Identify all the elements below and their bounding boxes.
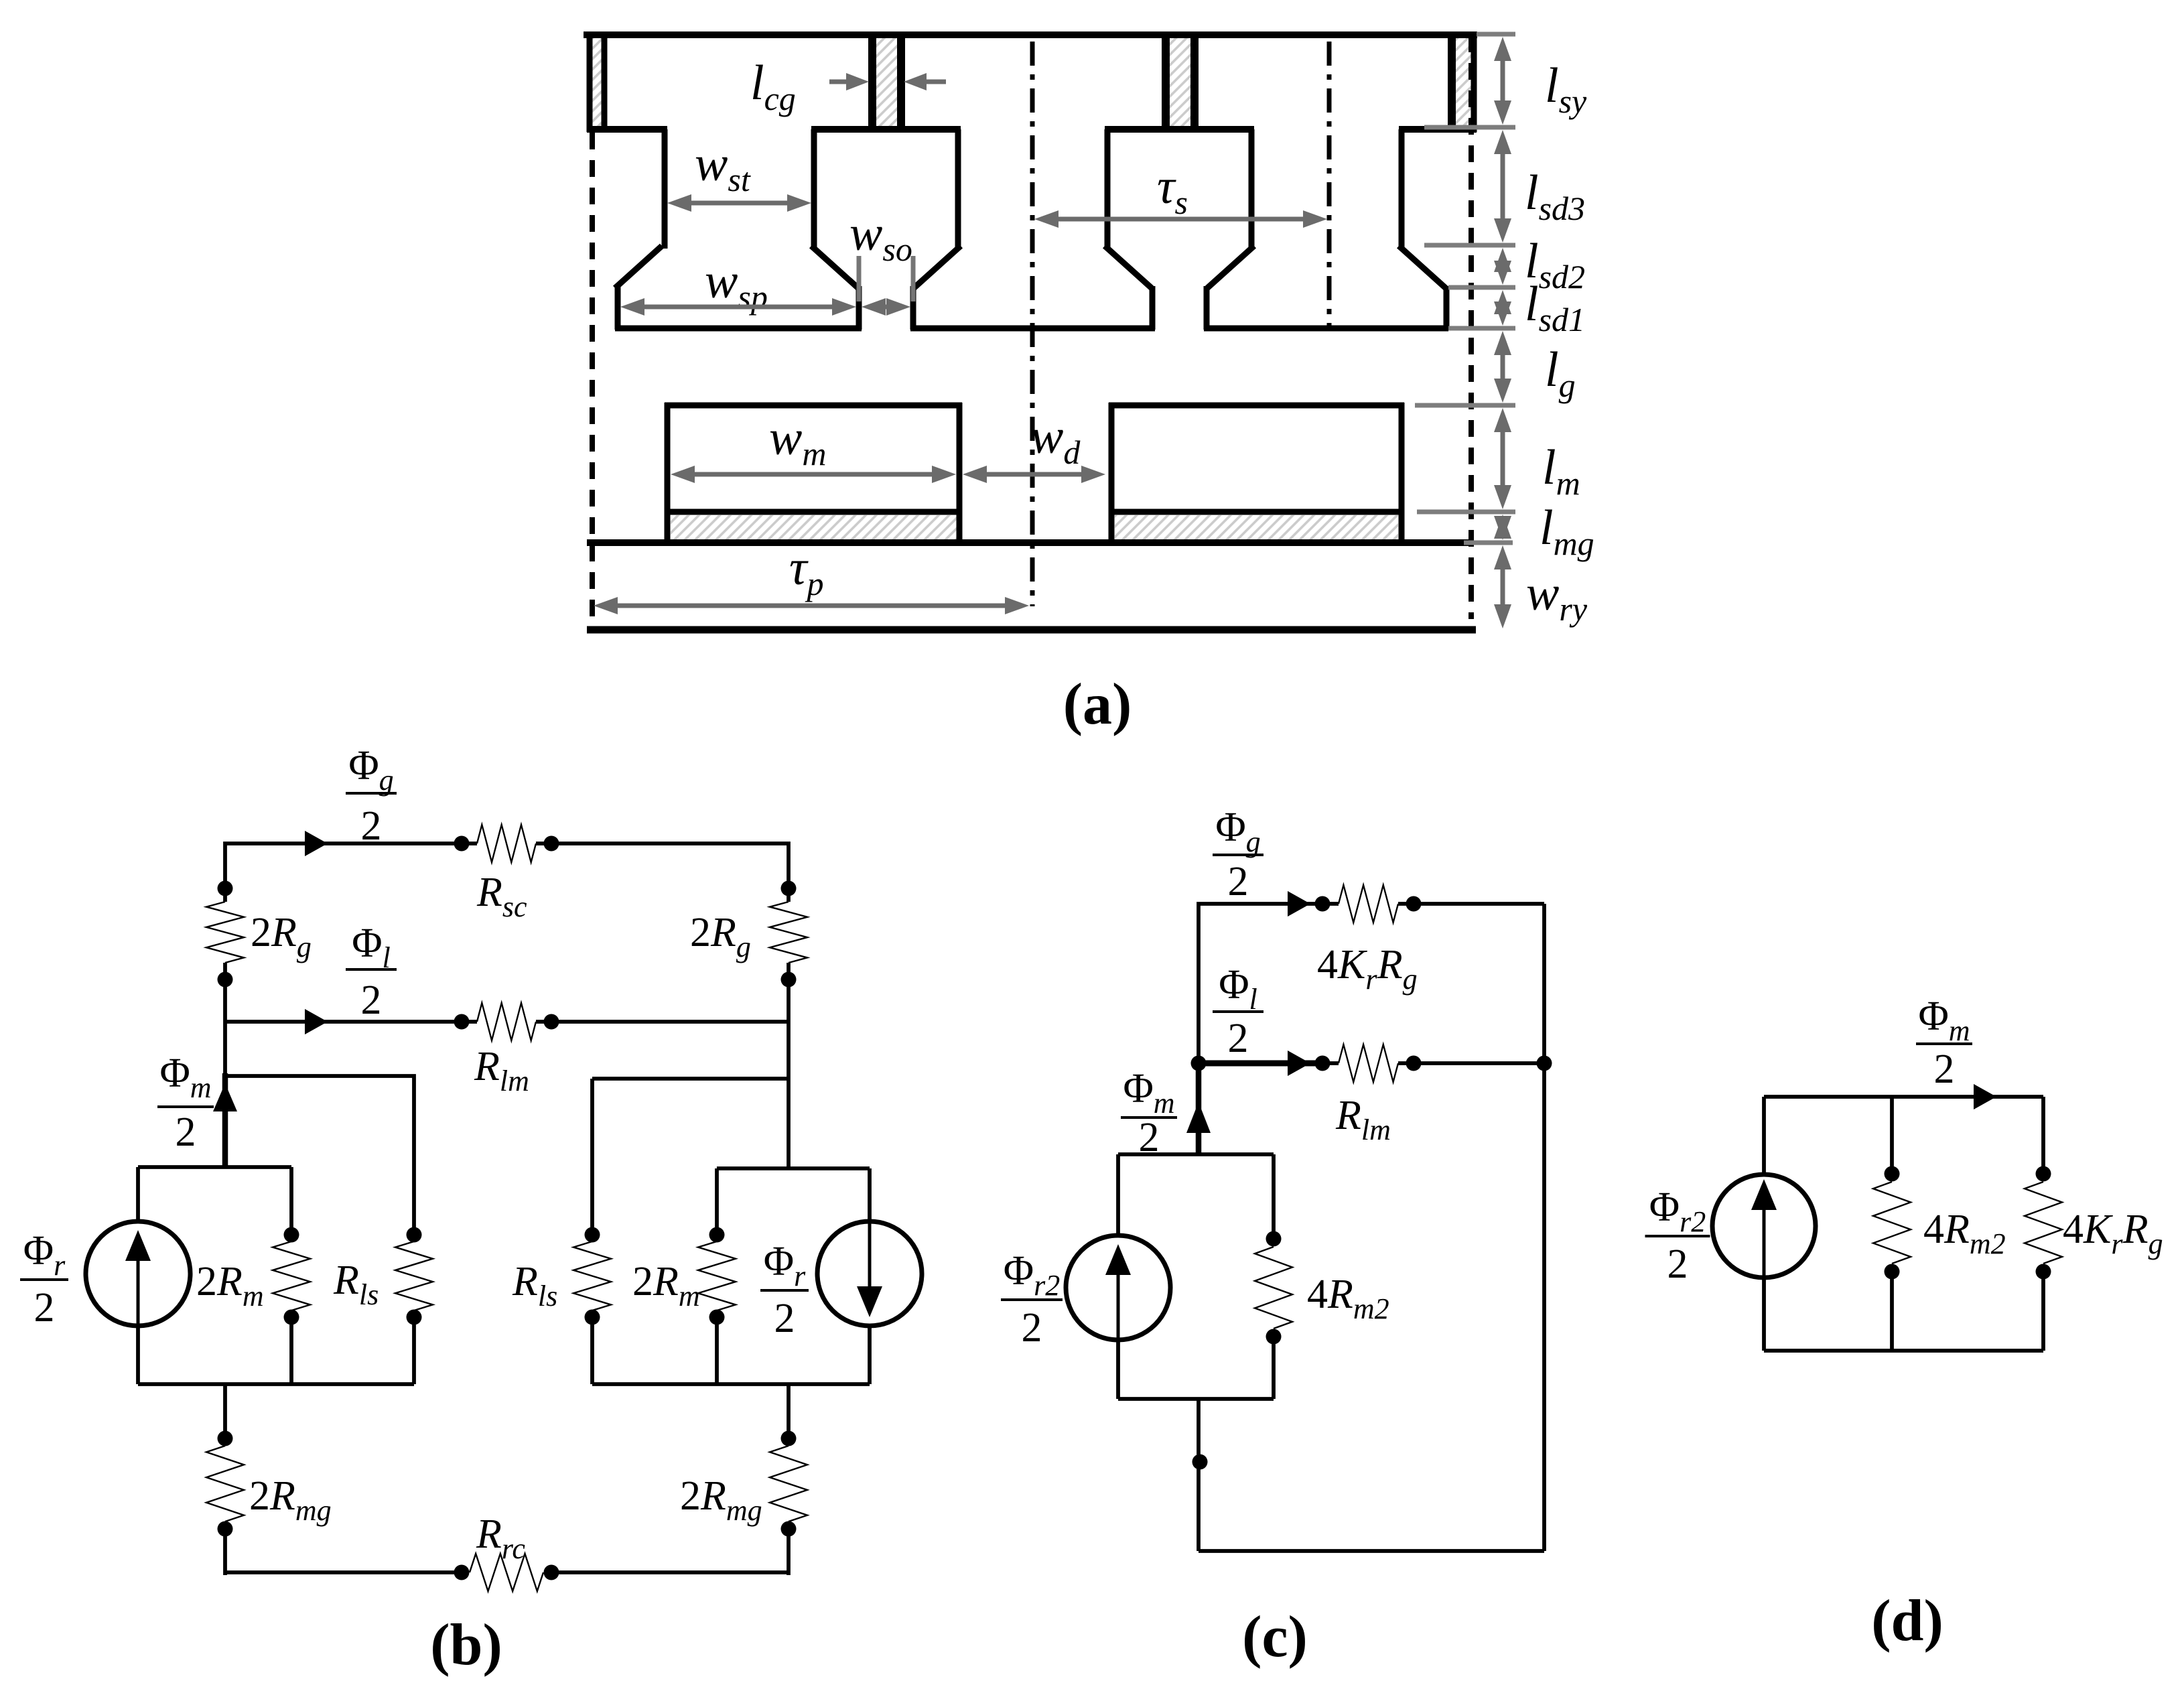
node dot c Rlm right xyxy=(1406,1056,1422,1071)
wire b left 2Rm branch bottom xyxy=(289,1317,293,1384)
resistor 2R_mg right xyxy=(770,1446,807,1521)
flux source Phi_r/2 left circle xyxy=(86,1221,190,1326)
label Phi_r2/2 (d) xyxy=(1645,1185,1710,1287)
tooth centerline dash-dot 2 xyxy=(1327,42,1332,328)
wire b right vertical mid xyxy=(787,963,791,1168)
dimension arrow w_st xyxy=(667,194,811,212)
right symmetry dashed line xyxy=(1469,36,1474,619)
dim chain tick lsd2/lsd1 xyxy=(1448,285,1515,290)
svg-text:2: 2 xyxy=(176,1109,196,1155)
wire b left 2Rm branch top xyxy=(289,1167,293,1235)
svg-text:2: 2 xyxy=(1934,1046,1955,1092)
dimension arrow w_d xyxy=(963,466,1105,483)
dim chain tick lg/lm xyxy=(1415,403,1515,408)
label Phi_m/2 (c) xyxy=(1121,1066,1177,1160)
node dot d 4KrRg top xyxy=(2036,1166,2051,1182)
node dot b left top xyxy=(218,881,233,896)
wire b top left segment (Phi_g/2 path) xyxy=(225,843,477,902)
resistor R_lm (c) xyxy=(1339,1044,1398,1082)
slot4 left wall xyxy=(1399,129,1405,249)
slot2 left channel wall xyxy=(856,286,862,330)
wire b left loop top xyxy=(138,1165,291,1169)
wire b bottom rail right xyxy=(551,1570,789,1574)
resistor 2R_mg left xyxy=(206,1446,244,1521)
dimension arrow w_so xyxy=(862,298,910,316)
dimension arrow tau_p xyxy=(594,597,1029,614)
wire b Rlm row left xyxy=(225,1020,477,1024)
dimension arrow w_m xyxy=(671,466,956,483)
dimension arrow tau_s xyxy=(1034,210,1327,228)
slot1 right channel wall xyxy=(615,286,621,330)
node dot b right top xyxy=(781,881,797,896)
dim chain arrow w_ry xyxy=(1494,545,1511,628)
wire c 4Rm2 branch xyxy=(1272,1154,1276,1239)
coil gap strip borders slot2 xyxy=(868,32,876,129)
wire c Phi_m/2 segment xyxy=(1196,1063,1202,1154)
node dot d 4Rm2 bot xyxy=(1885,1264,1900,1280)
node dot b left mid xyxy=(218,972,233,988)
resistor 4R_m2 (c) xyxy=(1255,1247,1292,1329)
stator yoke bottom edge seg4 xyxy=(1399,126,1477,133)
magnet1 glue gap hatch xyxy=(671,515,957,540)
flux arrow Phi_m/2 (d) xyxy=(1974,1084,1996,1109)
dim chain arrow l_mg xyxy=(1494,515,1511,540)
wire c right vertical xyxy=(1542,904,1546,1551)
node dot b 2Rmg-l bot xyxy=(218,1521,233,1537)
flux arrow Phi_l/2 (c) xyxy=(1288,1051,1310,1076)
node dot b 2Rmg-r bot xyxy=(781,1521,797,1537)
flux arrow Phi_g/2 (b) xyxy=(305,831,328,856)
slot4 left channel wall xyxy=(1444,286,1450,330)
wire c top row xyxy=(1199,904,1339,1063)
slot2 right wall xyxy=(955,129,961,249)
svg-text:2: 2 xyxy=(34,1285,55,1331)
svg-text:(b): (b) xyxy=(430,1613,502,1678)
wire b left Rls branch bottom xyxy=(412,1317,416,1384)
wire d middle branch xyxy=(1890,1097,1894,1174)
node dot b 2Rm-l bot xyxy=(284,1310,299,1325)
coil gap hatch strip left edge xyxy=(592,38,602,127)
svg-text:(d): (d) xyxy=(1871,1588,1943,1653)
wire b left 2Rmg stem xyxy=(223,1384,227,1438)
node dot b Rrc right xyxy=(544,1565,559,1580)
wire c bottom stem xyxy=(1197,1399,1201,1551)
dim chain arrow l_m xyxy=(1494,408,1511,509)
dim chain tick lmg/wry xyxy=(1464,541,1513,545)
node dot b Rsc right xyxy=(544,836,559,852)
node dot d 4Rm2 top xyxy=(1885,1166,1900,1182)
svg-text:2: 2 xyxy=(1022,1305,1042,1351)
dim chain arrow l_sd3 xyxy=(1494,130,1511,243)
label Phi_m/2 (b) xyxy=(157,1051,214,1155)
slot2 right channel wall xyxy=(910,286,916,330)
flux source Phi_r2/2 (c) circle xyxy=(1066,1235,1170,1340)
label Phi_m/2 (d) xyxy=(1916,994,1972,1092)
svg-text:2: 2 xyxy=(1667,1241,1688,1287)
node dot b 2Rm-l top xyxy=(284,1227,299,1243)
wire c loop left branch xyxy=(1116,1154,1120,1237)
wire c Rlm row xyxy=(1325,1061,1339,1065)
slot1 right wall xyxy=(662,129,668,249)
wire b right 2Rmg to rail xyxy=(787,1529,791,1575)
dim chain arrow l_sd1 xyxy=(1494,290,1511,326)
svg-text:2: 2 xyxy=(1228,859,1249,904)
wire b left loop bottom xyxy=(138,1382,414,1386)
node dot c top res right xyxy=(1406,896,1422,912)
coil gap hatch strip slot3 xyxy=(1170,36,1190,128)
rotor yoke bottom edge xyxy=(587,626,1476,634)
node dot c right vert xyxy=(1537,1056,1552,1071)
wire b left vertical mid xyxy=(223,963,227,1075)
node dot b Rls-r top xyxy=(585,1227,600,1243)
stator yoke bottom edge seg2 (slot2 top) xyxy=(811,126,961,133)
w_so tick right xyxy=(911,256,916,301)
svg-text:2: 2 xyxy=(774,1296,795,1341)
stator yoke left edge xyxy=(587,31,593,132)
dim chain arrow l_sy xyxy=(1494,37,1511,125)
slot4 left shoe slant xyxy=(1399,246,1446,288)
flux arrow Phi_g/2 (c) xyxy=(1288,891,1310,917)
node dot b Rls-l top xyxy=(407,1227,422,1243)
wire c loop bottom xyxy=(1118,1397,1274,1401)
node dot c junction xyxy=(1191,1056,1207,1071)
wire d right branch xyxy=(2041,1097,2045,1174)
flux source Phi_r2/2 (d) arrow xyxy=(1763,1193,1766,1337)
dim chain arrow l_g xyxy=(1494,331,1511,403)
tooth centerline dash-dot 1 xyxy=(1030,42,1035,606)
resistor R_ls left xyxy=(395,1241,433,1310)
tooth2 bottom face xyxy=(910,326,1155,332)
wire b left Phi_m/2 segment xyxy=(222,1073,228,1168)
stator yoke bottom edge seg3 (slot3 top) xyxy=(1105,126,1254,133)
node dot b Rsc left xyxy=(454,836,470,852)
label Phi_l/2 (b) xyxy=(346,921,397,1023)
flux source Phi_r/2 left arrow xyxy=(137,1243,140,1325)
flux source Phi_r2/2 (c) arrow xyxy=(1117,1257,1120,1339)
wire c Phi_l/2 thick segment xyxy=(1199,1061,1325,1067)
wire b bottom rail left xyxy=(225,1570,462,1574)
wire d top xyxy=(1764,1095,2043,1099)
wire b right loop bottom xyxy=(590,1317,594,1384)
node dot b 2Rmg-l top xyxy=(218,1431,233,1446)
resistor R_ls right xyxy=(573,1241,611,1310)
dimension arrow w_sp xyxy=(620,298,856,316)
slot3 right channel wall xyxy=(1204,286,1210,330)
wire b right 2Rmg stem xyxy=(787,1384,791,1438)
dim chain tick l_sy top xyxy=(1477,32,1515,37)
wire b right source branch xyxy=(868,1168,872,1223)
stator yoke right edge xyxy=(1471,31,1477,132)
svg-text:(c): (c) xyxy=(1242,1605,1308,1670)
stator yoke bottom edge seg1 xyxy=(587,126,667,133)
resistor 2R_m right xyxy=(698,1241,736,1310)
wire b Rlm row right xyxy=(536,1020,789,1024)
resistor 4K_rR_g (d) xyxy=(2025,1182,2062,1264)
resistor R_rc xyxy=(470,1554,543,1591)
node dot b 2Rmg-r top xyxy=(781,1431,797,1446)
flux source Phi_r/2 right arrow xyxy=(868,1222,872,1304)
resistor 2R_g right xyxy=(770,902,807,963)
node dot b right mid xyxy=(781,972,797,988)
slot2 right shoe slant xyxy=(914,246,961,288)
resistor R_sc xyxy=(477,825,536,862)
label Phi_g/2 (c) xyxy=(1213,805,1264,904)
wire b left Rls top link xyxy=(225,1076,414,1233)
resistor 4R_m2 (d) xyxy=(1873,1182,1911,1264)
wire c loop top xyxy=(1118,1152,1274,1156)
flux source Phi_r/2 right circle xyxy=(817,1221,922,1326)
node dot c bottom stem xyxy=(1192,1455,1208,1470)
left symmetry dashed line xyxy=(590,133,595,633)
node dot c top res left xyxy=(1315,896,1330,912)
svg-text:(a): (a) xyxy=(1063,672,1132,737)
wire b right Rls top link xyxy=(592,1077,789,1081)
node dot b 2Rm-r bot xyxy=(709,1310,725,1325)
resistor R_lm (b) xyxy=(477,1003,536,1040)
wire b left loop left branch xyxy=(136,1167,140,1223)
node dot b Rls-r bot xyxy=(585,1310,600,1325)
dimension arrow l_cg left xyxy=(829,73,869,90)
node dot c 4Rm2 top xyxy=(1266,1231,1282,1247)
node dot b Rlm right xyxy=(544,1014,559,1030)
wire c bottom rail xyxy=(1199,1549,1544,1553)
node dot b Rls-l bot xyxy=(407,1310,422,1325)
slot3 right shoe slant xyxy=(1207,246,1254,288)
svg-text:2: 2 xyxy=(361,977,382,1023)
coil gap strip border right xyxy=(1448,32,1456,129)
slot1 right shoe slant xyxy=(615,246,662,288)
wire b left 2Rmg to rail xyxy=(223,1529,227,1575)
node dot b 2Rm-r top xyxy=(709,1227,725,1243)
resistor 2R_g left xyxy=(206,902,244,963)
coil gap hatch strip slot2 xyxy=(876,36,897,128)
label Phi_l/2 (c) xyxy=(1213,962,1264,1061)
dim chain tick lsd3/lsd2 xyxy=(1424,243,1515,248)
wire d left branch xyxy=(1762,1097,1766,1174)
flux arrow Phi_m/2 (b) xyxy=(213,1083,237,1111)
label Phi_r2/2 (c) xyxy=(1001,1248,1063,1351)
slot3 right wall xyxy=(1249,129,1255,249)
rotor yoke top surface xyxy=(587,539,1473,546)
magnet1 outline xyxy=(665,403,671,543)
resistor 2R_m left xyxy=(273,1241,310,1310)
w_so tick left xyxy=(857,256,862,301)
coil gap strip border left xyxy=(602,32,608,129)
svg-text:2: 2 xyxy=(1139,1115,1160,1160)
label Phi_r/2 right xyxy=(760,1239,809,1341)
svg-text:2: 2 xyxy=(361,803,382,849)
wire b top right segment xyxy=(536,843,789,902)
stator yoke top edge xyxy=(584,31,1477,38)
slot3 left shoe slant xyxy=(1105,246,1152,288)
node dot b Rlm left xyxy=(454,1014,470,1030)
tooth1 bottom face xyxy=(615,326,862,332)
dim chain tick lsd1/lg xyxy=(1448,326,1515,331)
dimension arrow l_cg right xyxy=(904,73,946,90)
node dot b Rrc left xyxy=(454,1565,470,1580)
coil gap hatch strip right edge xyxy=(1456,36,1471,128)
flux arrow Phi_m/2 (c) xyxy=(1186,1102,1211,1133)
dim chain tick lsy/lsd3 xyxy=(1424,125,1515,130)
wire b right loop top xyxy=(717,1166,870,1170)
slot3 left wall xyxy=(1105,129,1111,249)
node dot c 4Rm2 bot xyxy=(1266,1329,1282,1345)
label Phi_r/2 left xyxy=(20,1228,68,1331)
resistor 4K_rR_g (c) xyxy=(1339,885,1398,923)
coil gap strip borders slot3 xyxy=(1162,32,1170,129)
node dot c Rlm left xyxy=(1315,1056,1330,1071)
label Phi_g/2 (b) xyxy=(346,743,397,849)
magnet2 outline xyxy=(1109,403,1115,543)
wire b right 2Rm branch xyxy=(715,1168,719,1235)
wire b right Rls branch xyxy=(590,1079,594,1235)
flux arrow Phi_l/2 (b) xyxy=(305,1009,328,1034)
tooth3 bottom face xyxy=(1204,326,1448,332)
magnet2 glue gap hatch xyxy=(1115,515,1398,540)
svg-text:2: 2 xyxy=(1228,1016,1249,1061)
slot2 left wall xyxy=(811,129,817,249)
dim chain arrow l_sd2 xyxy=(1494,248,1511,285)
slot2 left shoe slant xyxy=(811,246,858,288)
wire d bottom xyxy=(1764,1349,2043,1353)
node dot d 4KrRg bot xyxy=(2036,1264,2051,1280)
slot3 left channel wall xyxy=(1150,286,1156,330)
flux source Phi_r2/2 (d) circle xyxy=(1712,1174,1816,1278)
dim chain tick lm/lmg xyxy=(1417,510,1515,515)
